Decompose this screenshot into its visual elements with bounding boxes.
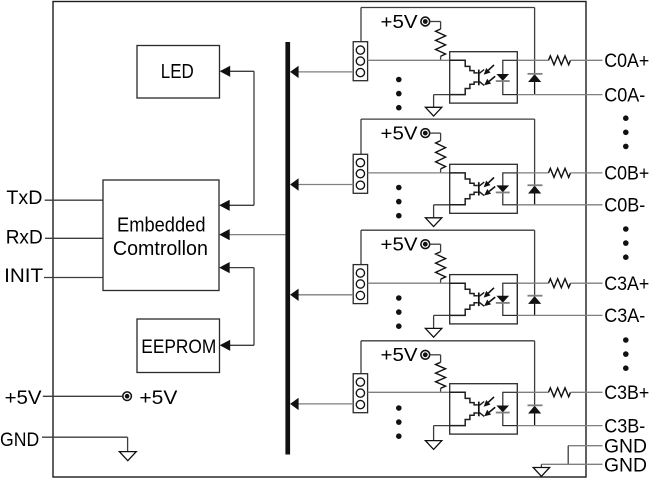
wire channel 1 +5V top loop (361, 8, 535, 74)
wire channel 2 to bus (297, 184, 353, 186)
continuation dots right of C0A- (623, 115, 629, 149)
svg-text:C0A+: C0A+ (604, 51, 649, 72)
connector J2 box (353, 154, 367, 193)
resistor R1 pull-up (436, 29, 446, 56)
label Comtrollon (113, 238, 208, 260)
connector J3 pin 3 (356, 291, 364, 299)
wire to terminal C0B+ (571, 172, 603, 174)
arrow into controller top (219, 200, 230, 211)
wire +5V dot to resistor R3 (430, 244, 441, 283)
wire RxD to controller (45, 237, 103, 239)
connector J4 pin 3 (356, 400, 364, 408)
connector J4 pin 2 (356, 389, 364, 397)
diode D4 clamp (528, 405, 543, 425)
optocoupler U1 detector staircase (450, 60, 485, 94)
wire +5V dot to resistor R1 (430, 22, 441, 61)
svg-text:+5V: +5V (139, 387, 177, 409)
resistor R2 pull-up (436, 141, 446, 169)
resistor R4 pull-up (436, 362, 446, 388)
node terminal C0A- (604, 85, 645, 106)
optocoupler U4 detector staircase (450, 392, 485, 425)
wire bottom rail channel 1 (517, 94, 602, 96)
optocoupler U2 box (450, 164, 518, 213)
wire input rail channel 4 (368, 391, 450, 393)
resistor R3 pull-up (436, 252, 446, 280)
pin +5V channel 1 circled dot (421, 17, 430, 26)
resistor R2s series (549, 168, 571, 177)
label +5V channel 2 (381, 124, 418, 144)
arrow into EEPROM (220, 340, 231, 351)
optocoupler U3 box (450, 275, 518, 324)
svg-text:+5V: +5V (5, 387, 42, 409)
continuation dots channel 3 (396, 295, 402, 329)
connector J4 box (353, 374, 367, 413)
svg-text:C3A+: C3A+ (604, 274, 649, 295)
node terminal C3B+ (604, 383, 649, 404)
arrow into controller bottom (219, 262, 230, 273)
resistor R3s series (549, 279, 571, 288)
svg-text:C0A-: C0A- (604, 85, 645, 106)
wire to terminal C3A+ (571, 282, 603, 284)
wire +5V dot to resistor R4 (430, 355, 441, 393)
label EEPROM (141, 336, 216, 358)
continuation dots channel 1 (396, 77, 402, 111)
wire GND 1 (568, 446, 602, 465)
diode D3 clamp (528, 296, 543, 316)
label +5V channel 1 (381, 12, 418, 32)
optocoupler U1 box (450, 52, 518, 103)
svg-text:+5V: +5V (381, 345, 418, 365)
connector J4 pin 1 (356, 378, 364, 386)
ground symbol channel 2 (425, 218, 441, 227)
wire channel 4 +5V top loop (361, 341, 535, 406)
optocoupler U1 output cell (503, 60, 518, 94)
svg-text:GND: GND (604, 454, 647, 476)
block Embedded Controller box (103, 180, 219, 291)
svg-text:C3B+: C3B+ (604, 383, 649, 404)
svg-text:INIT: INIT (4, 265, 43, 287)
label LED (161, 61, 194, 83)
continuation dots channel 2 (396, 185, 402, 219)
node terminal C3A- (604, 306, 645, 327)
optocoupler U4 light arrow 1 (484, 397, 494, 407)
connector J1 pin 1 (356, 46, 364, 54)
optocoupler U3 detector staircase (450, 283, 485, 315)
label +5V channel 3 (381, 235, 418, 255)
node terminal C3B- (604, 416, 645, 437)
wire channel 3 +5V top loop (361, 230, 535, 296)
node terminal C3A+ (604, 274, 649, 295)
continuation dots channel 4 (396, 405, 402, 439)
wire output rail channel 2 (517, 172, 548, 174)
diode D2 clamp (528, 185, 543, 205)
diode D1 clamp (528, 74, 543, 95)
optocoupler U2 detector staircase (450, 173, 485, 205)
svg-text:TxD: TxD (6, 187, 42, 209)
optocoupler U1 light arrow 2 (484, 76, 495, 85)
svg-text:+5V: +5V (381, 124, 418, 144)
wire ground channel 1 (434, 95, 450, 108)
arrow channel 2 into bus (290, 178, 299, 190)
wire channel 2 +5V top loop (361, 119, 535, 185)
node RxD label (6, 227, 43, 249)
svg-text:+5V: +5V (381, 235, 418, 255)
connector J2 pin 3 (356, 181, 364, 189)
connector J1 pin 2 (356, 57, 364, 65)
node terminal C0B+ (604, 164, 649, 185)
wire channel 4 to bus (297, 403, 353, 405)
node terminal C0A+ (604, 51, 649, 72)
ground symbol channel 3 (425, 328, 441, 337)
optocoupler U2 output cell (503, 173, 518, 205)
wire bottom rail channel 3 (517, 314, 602, 316)
resistor R1s series (549, 56, 571, 65)
arrow channel 3 into bus (290, 289, 299, 301)
wire GND 2 (541, 464, 602, 467)
ground symbol channel 1 (425, 107, 441, 116)
node TxD label (6, 187, 42, 209)
svg-text:GND: GND (0, 429, 39, 451)
optocoupler U3 output cell (503, 283, 518, 315)
wire +5V dot to resistor R2 (430, 133, 441, 173)
svg-text:C3B-: C3B- (604, 416, 645, 437)
wire bottom rail channel 4 (517, 425, 602, 427)
wire channel 1 to bus (297, 71, 353, 73)
arrow channel 1 into bus (290, 66, 299, 78)
node INIT label (4, 265, 43, 287)
wire to terminal C3B+ (571, 391, 603, 393)
wire +5V to pin (43, 395, 123, 397)
optocoupler U3 LED (496, 296, 510, 303)
optocoupler U4 LED (496, 405, 510, 412)
connector J1 pin 3 (356, 68, 364, 76)
wire output rail channel 3 (517, 282, 548, 284)
pin +5V circled dot (123, 392, 132, 401)
connector J3 pin 1 (356, 269, 364, 277)
optocoupler U3 light arrow 2 (484, 297, 495, 306)
wire TxD to controller (45, 199, 103, 201)
ground symbol channel 4 (425, 441, 441, 450)
optocoupler U4 output cell (503, 392, 518, 425)
connector J2 pin 2 (356, 170, 364, 178)
pin +5V channel 2 circled dot (421, 129, 430, 138)
wire input rail channel 2 (368, 172, 450, 174)
optocoupler U2 light arrow 1 (484, 178, 494, 188)
svg-text:C0B+: C0B+ (604, 164, 649, 185)
pin +5V channel 3 circled dot (421, 240, 430, 249)
data bus bar (285, 42, 290, 455)
wire controller to EEPROM (230, 268, 255, 346)
wire output rail channel 4 (517, 391, 548, 393)
svg-text:+5V: +5V (381, 12, 418, 32)
wire GND left (42, 437, 128, 451)
svg-text:Comtrollon: Comtrollon (113, 238, 208, 260)
resistor R4s series (549, 388, 571, 397)
wire output rail channel 1 (517, 59, 548, 61)
svg-text:C0B-: C0B- (604, 196, 645, 217)
block EEPROM box (137, 319, 220, 373)
label +5V channel 4 (381, 345, 418, 365)
svg-text:Embedded: Embedded (117, 214, 206, 236)
optocoupler U2 LED (496, 185, 510, 192)
arrow into LED (220, 66, 231, 77)
svg-text:C3A-: C3A- (604, 306, 645, 327)
optocoupler U4 light arrow 2 (484, 407, 495, 416)
optocoupler U3 light arrow 1 (484, 288, 494, 298)
wire to terminal C0A+ (571, 59, 603, 61)
arrow into controller middle (219, 229, 230, 240)
connector J3 box (353, 265, 367, 304)
pin +5V channel 4 circled dot (421, 350, 430, 359)
wire channel 3 to bus (297, 294, 353, 296)
continuation dots right of C0B- (623, 226, 629, 260)
ground symbol left (119, 452, 136, 461)
connector J1 box (353, 42, 367, 81)
node GND left label (0, 429, 39, 451)
block LED box (137, 46, 220, 99)
node terminal C0B- (604, 196, 645, 217)
svg-text:EEPROM: EEPROM (141, 336, 216, 358)
wire controller to LED (230, 71, 255, 205)
svg-text:LED: LED (161, 61, 194, 83)
node terminal GND 1 (604, 436, 647, 458)
wire ground channel 2 (434, 205, 450, 218)
wire INIT to controller (44, 277, 103, 279)
svg-text:RxD: RxD (6, 227, 43, 249)
ground symbol bottom right (533, 468, 549, 477)
wire ground channel 3 (434, 315, 450, 328)
node terminal GND 2 (604, 454, 647, 476)
node +5V inner label (139, 387, 177, 409)
optocoupler U1 light arrow 1 (484, 65, 494, 75)
arrow channel 4 into bus (290, 398, 299, 410)
optocoupler U4 box (450, 384, 518, 434)
wire bottom rail channel 2 (517, 204, 602, 206)
optocoupler U1 LED (496, 74, 510, 81)
wire bus to controller (230, 234, 286, 236)
connector J3 pin 2 (356, 280, 364, 288)
wire ground channel 4 (434, 426, 450, 441)
label Embedded (117, 214, 206, 236)
wire input rail channel 1 (368, 59, 450, 61)
continuation dots right of C3A- (623, 337, 629, 371)
optocoupler U2 light arrow 2 (484, 187, 495, 196)
node +5V left label (5, 387, 42, 409)
connector J2 pin 1 (356, 159, 364, 167)
wire input rail channel 3 (368, 282, 450, 284)
